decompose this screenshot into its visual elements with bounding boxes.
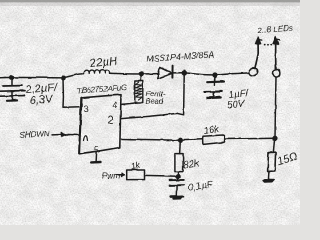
- LED right lead: [275, 45, 277, 70]
- capacitor C-in 2.2uF: [11, 79, 13, 86]
- ferrite bead stem: [139, 75, 141, 82]
- node input junction: [10, 76, 14, 80]
- ground: [7, 99, 17, 102]
- svg-text:2: 2: [108, 115, 114, 127]
- output capacitor C2 1uF stem: [214, 76, 216, 82]
- capacitor C2 1uF: [207, 81, 224, 84]
- wire: [110, 72, 142, 75]
- ground R4: [263, 179, 275, 182]
- LED connector left circle: [249, 68, 257, 75]
- resistor R1 16k: [203, 135, 225, 144]
- wire: [268, 172, 270, 179]
- node sense junction: [273, 136, 277, 140]
- svg-text:SHDWN: SHDWN: [19, 128, 50, 140]
- wire: [224, 137, 274, 140]
- ground: [207, 96, 220, 99]
- svg-text:5: 5: [95, 146, 100, 155]
- wire to pin3: [63, 78, 81, 107]
- pin1 squiggle: [84, 136, 88, 141]
- resistor R4 15ohm stem: [273, 139, 274, 152]
- wire: [141, 73, 159, 75]
- SHDWN arrow: [52, 133, 79, 136]
- resistor R2 82k: [175, 154, 183, 172]
- wire: [63, 74, 84, 78]
- IC U1 box: [79, 95, 121, 154]
- node output cap junction: [213, 73, 217, 77]
- node diode anode junction: [139, 72, 143, 76]
- wire 1k to junction: [145, 174, 178, 177]
- wire pin2: [121, 75, 184, 119]
- svg-text:22µH: 22µH: [88, 56, 118, 71]
- resistor R4 15ohm: [268, 152, 276, 171]
- svg-text:16k: 16k: [203, 124, 221, 137]
- svg-text:Pwm: Pwm: [102, 171, 121, 181]
- resistor R3 1k: [127, 170, 145, 180]
- inductor L1 22uH: [84, 70, 110, 74]
- wire LED return: [275, 77, 276, 138]
- wire VIN rail: [0, 76, 63, 79]
- LED left lead: [255, 45, 258, 69]
- svg-text:6,3V: 6,3V: [29, 93, 54, 107]
- IC ground pin5: [95, 153, 98, 162]
- svg-text:3: 3: [84, 104, 89, 115]
- node diode cathode junction: [182, 71, 186, 75]
- wire bead to pin4: [121, 103, 137, 105]
- LED connector right circle: [273, 69, 280, 77]
- dots between leads: [264, 44, 266, 46]
- PWM arrow: [116, 174, 125, 176]
- node FB junction: [179, 138, 183, 142]
- wire: [173, 72, 184, 74]
- ferrite bead FB1: [135, 81, 143, 103]
- node PWM filter junction: [176, 174, 180, 178]
- diode D1 MSS1P4: [157, 67, 172, 78]
- top scan edge band: [0, 0, 300, 2]
- wire pin FB: [121, 139, 180, 140]
- capacitor C3 0.1uF: [176, 177, 178, 180]
- svg-text:4: 4: [112, 100, 117, 111]
- wire: [181, 139, 203, 140]
- wire: [177, 172, 180, 176]
- node L junction: [61, 76, 65, 80]
- wire output rail: [184, 73, 249, 75]
- ground: [171, 195, 183, 198]
- svg-text:50V: 50V: [227, 99, 247, 112]
- resistor R2 82k stem: [179, 141, 182, 154]
- svg-text:Bead: Bead: [146, 97, 164, 106]
